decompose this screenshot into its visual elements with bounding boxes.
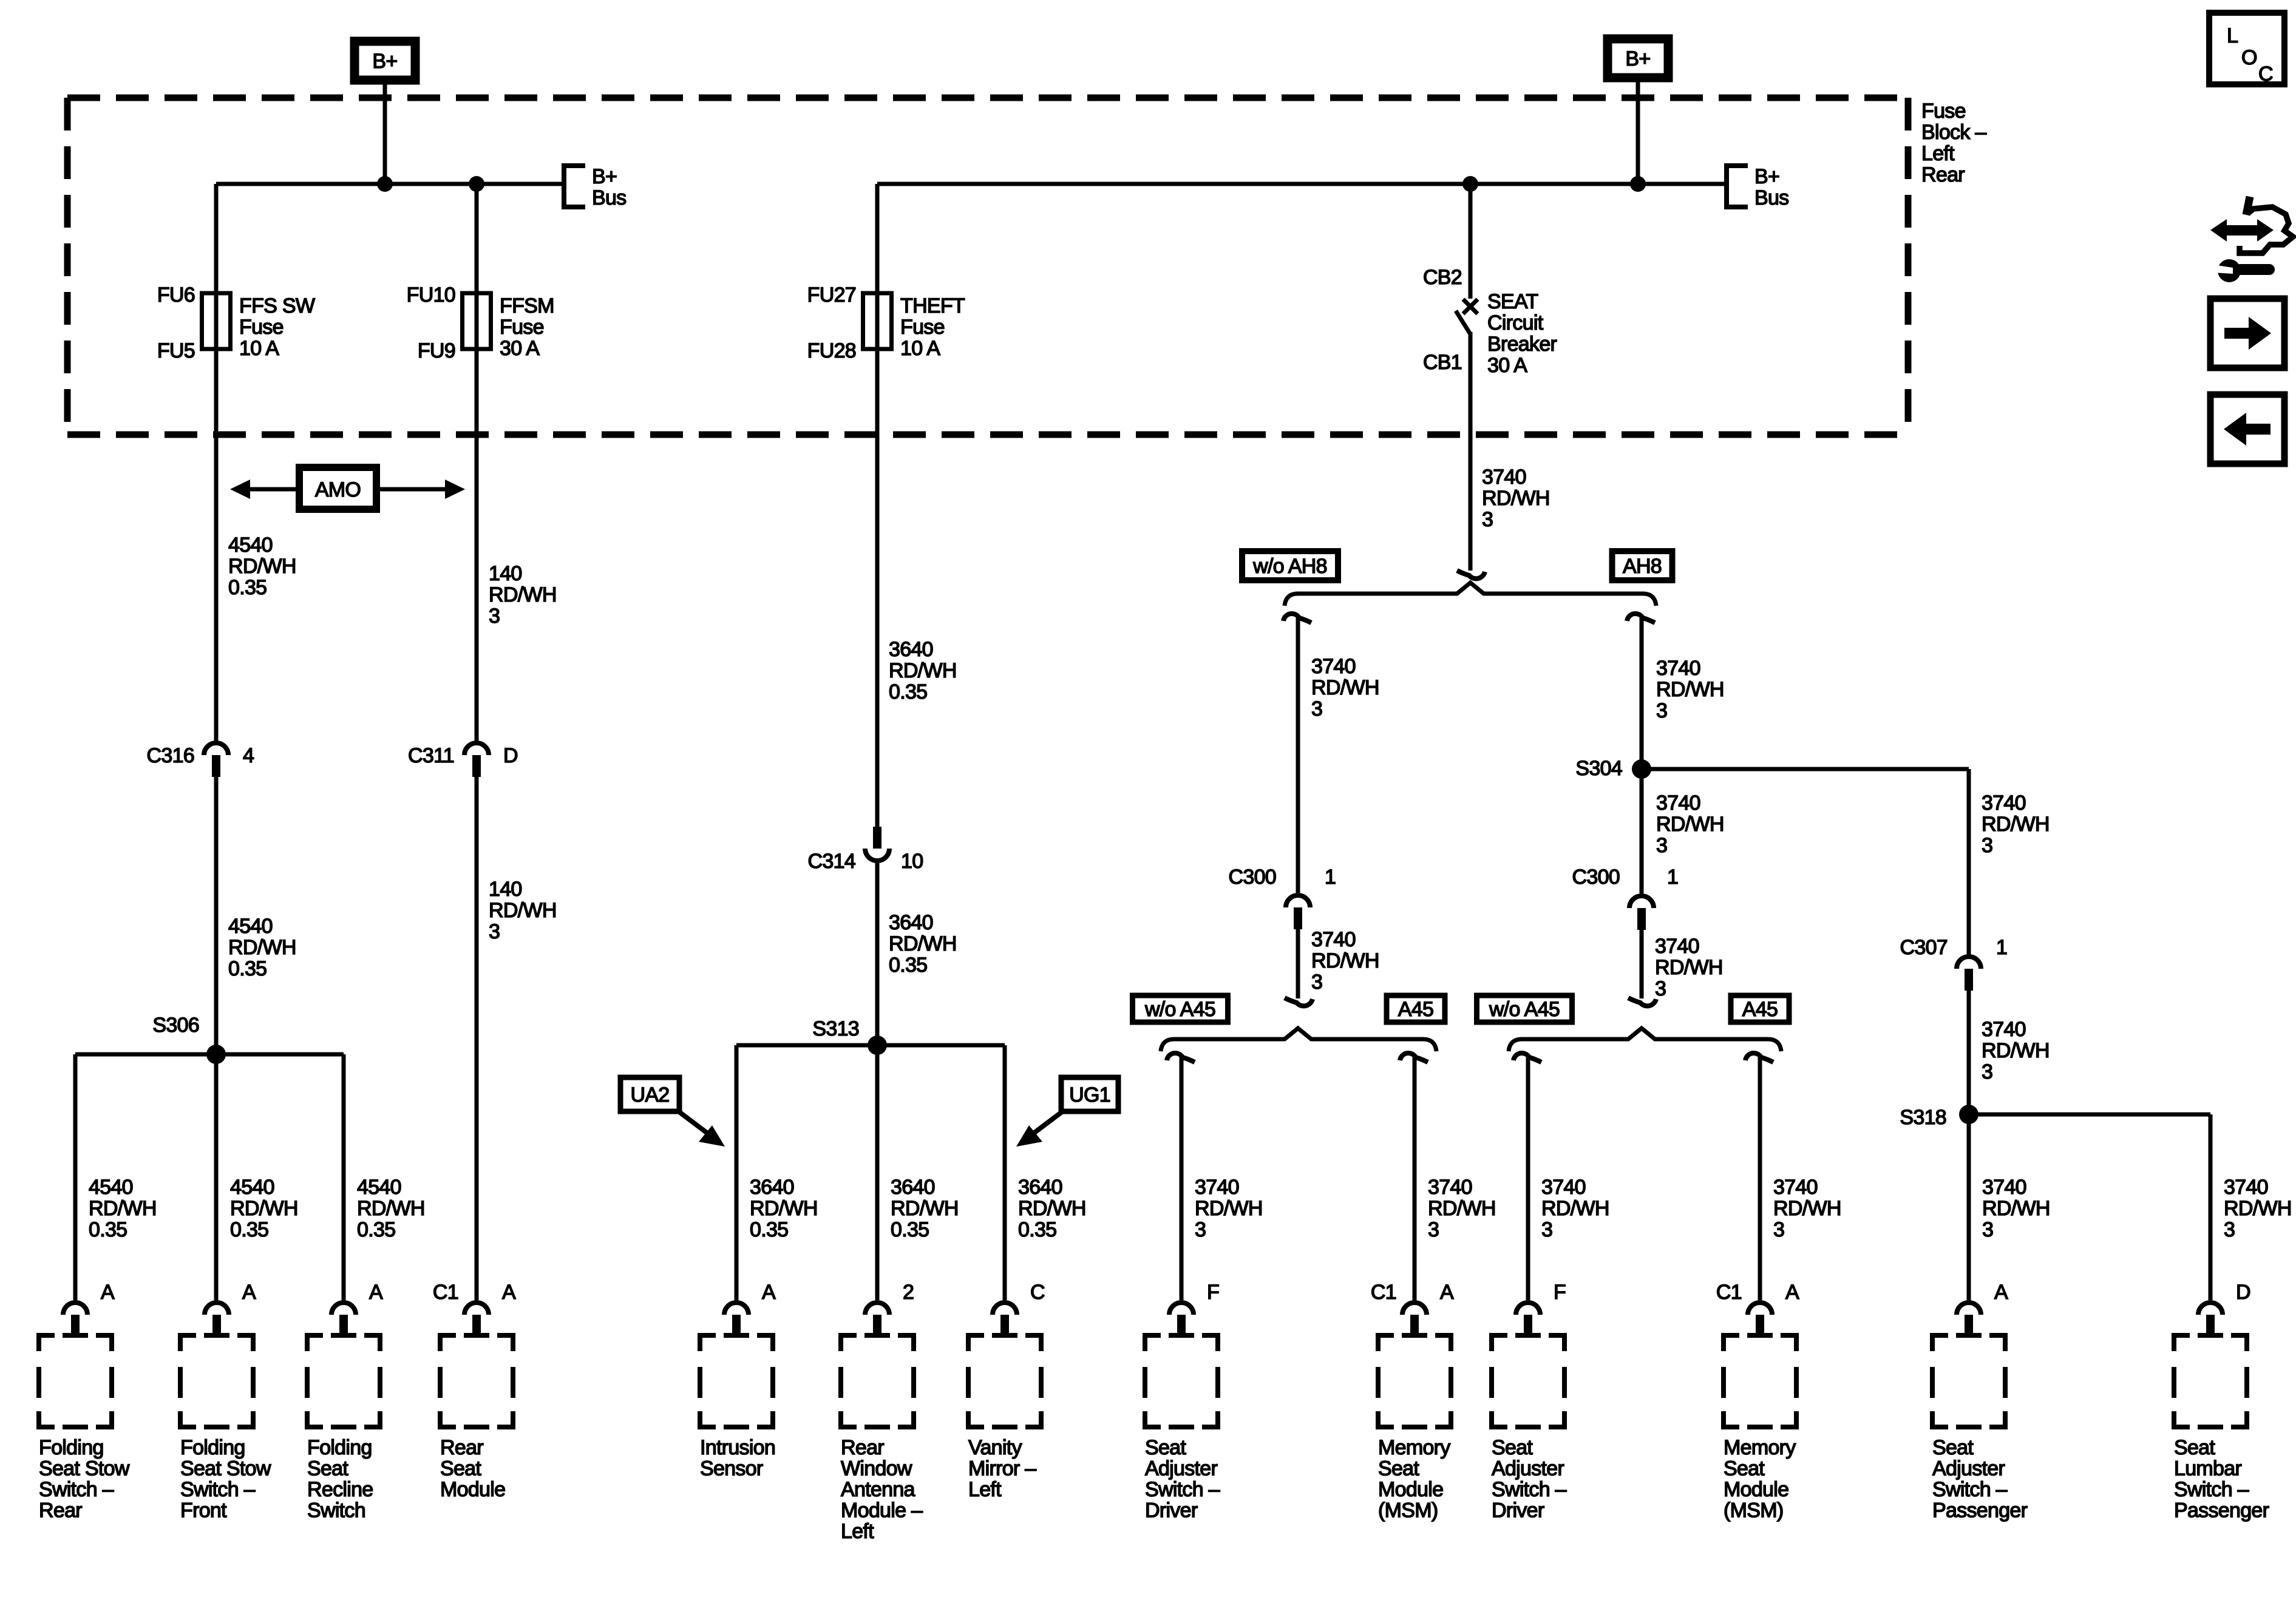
svg-text:RD/WH: RD/WH — [889, 932, 957, 955]
svg-text:Switch –: Switch – — [180, 1478, 256, 1501]
svg-text:D: D — [503, 744, 518, 767]
svg-text:C300: C300 — [1572, 866, 1620, 889]
svg-text:A: A — [502, 1281, 516, 1304]
svg-text:4540: 4540 — [357, 1176, 401, 1199]
svg-text:Fuse: Fuse — [900, 316, 945, 339]
svg-text:Fuse: Fuse — [1921, 100, 1966, 123]
svg-text:Bus: Bus — [592, 186, 627, 209]
svg-text:S313: S313 — [812, 1017, 859, 1040]
svg-text:CB2: CB2 — [1423, 266, 1462, 289]
svg-text:3740: 3740 — [1773, 1176, 1818, 1199]
svg-text:Folding: Folding — [307, 1436, 372, 1459]
svg-text:Module: Module — [1724, 1478, 1788, 1501]
svg-text:3: 3 — [489, 605, 500, 628]
svg-text:Seat Stow: Seat Stow — [180, 1457, 271, 1480]
svg-text:F: F — [1554, 1281, 1566, 1304]
svg-text:FU5: FU5 — [157, 339, 195, 362]
svg-text:Antenna: Antenna — [841, 1478, 915, 1501]
svg-text:Sensor: Sensor — [700, 1457, 763, 1480]
svg-text:SEAT: SEAT — [1487, 290, 1538, 313]
svg-text:3: 3 — [1541, 1218, 1552, 1241]
svg-text:RD/WH: RD/WH — [230, 1197, 298, 1220]
svg-text:Breaker: Breaker — [1487, 333, 1557, 356]
svg-text:C307: C307 — [1900, 936, 1948, 959]
svg-text:RD/WH: RD/WH — [1311, 676, 1379, 699]
svg-text:0.35: 0.35 — [89, 1218, 127, 1241]
svg-text:2: 2 — [903, 1281, 914, 1304]
svg-text:A: A — [1440, 1281, 1454, 1304]
svg-text:A: A — [242, 1281, 256, 1304]
svg-text:Seat: Seat — [1932, 1436, 1974, 1459]
svg-text:Seat Stow: Seat Stow — [39, 1457, 130, 1480]
svg-text:w/o AH8: w/o AH8 — [1252, 555, 1327, 578]
svg-text:3: 3 — [1982, 834, 1992, 857]
svg-text:RD/WH: RD/WH — [889, 659, 957, 682]
svg-text:Fuse: Fuse — [239, 316, 284, 339]
svg-text:A: A — [1994, 1281, 2008, 1304]
svg-text:RD/WH: RD/WH — [1982, 1197, 2050, 1220]
svg-text:3: 3 — [1982, 1060, 1992, 1083]
svg-text:C311: C311 — [408, 744, 454, 767]
svg-text:Memory: Memory — [1378, 1436, 1450, 1459]
svg-text:Rear: Rear — [440, 1436, 483, 1459]
svg-text:Driver: Driver — [1145, 1499, 1198, 1522]
svg-text:RD/WH: RD/WH — [1482, 487, 1550, 510]
svg-text:C314: C314 — [808, 850, 855, 873]
svg-text:Window: Window — [841, 1457, 912, 1480]
svg-text:AH8: AH8 — [1623, 555, 1662, 578]
svg-text:0.35: 0.35 — [228, 576, 267, 599]
svg-text:B+: B+ — [1754, 165, 1779, 188]
svg-text:RD/WH: RD/WH — [357, 1197, 425, 1220]
svg-text:CB1: CB1 — [1423, 351, 1462, 374]
svg-text:1: 1 — [1325, 866, 1336, 889]
svg-text:3740: 3740 — [1482, 466, 1526, 489]
svg-text:RD/WH: RD/WH — [1428, 1197, 1496, 1220]
svg-text:Left: Left — [841, 1520, 874, 1543]
svg-text:3740: 3740 — [1655, 935, 1699, 958]
svg-text:Switch –: Switch – — [1932, 1478, 2008, 1501]
svg-text:3740: 3740 — [1311, 655, 1356, 678]
svg-text:C: C — [2258, 63, 2273, 86]
svg-text:Fuse: Fuse — [500, 316, 544, 339]
svg-text:3: 3 — [1656, 699, 1667, 722]
svg-text:3740: 3740 — [1311, 928, 1356, 951]
svg-text:Passenger: Passenger — [2174, 1499, 2269, 1522]
svg-text:RD/WH: RD/WH — [489, 899, 557, 922]
svg-text:UG1: UG1 — [1069, 1083, 1110, 1107]
svg-text:RD/WH: RD/WH — [1982, 1039, 2050, 1062]
svg-text:Adjuster: Adjuster — [1492, 1457, 1564, 1480]
svg-text:Switch –: Switch – — [1492, 1478, 1567, 1501]
svg-text:4540: 4540 — [230, 1176, 274, 1199]
svg-text:RD/WH: RD/WH — [1541, 1197, 1609, 1220]
svg-text:THEFT: THEFT — [900, 294, 965, 317]
svg-text:C316: C316 — [147, 744, 194, 767]
svg-text:RD/WH: RD/WH — [89, 1197, 157, 1220]
svg-text:Module: Module — [1378, 1478, 1443, 1501]
svg-text:RD/WH: RD/WH — [1018, 1197, 1086, 1220]
svg-text:Rear: Rear — [39, 1499, 82, 1522]
svg-text:Left: Left — [968, 1478, 1002, 1501]
svg-text:3: 3 — [1428, 1218, 1439, 1241]
svg-text:Recline: Recline — [307, 1478, 373, 1501]
svg-text:A: A — [762, 1281, 776, 1304]
svg-text:O: O — [2241, 46, 2257, 69]
svg-text:A: A — [101, 1281, 115, 1304]
svg-text:RD/WH: RD/WH — [750, 1197, 818, 1220]
svg-text:Passenger: Passenger — [1932, 1499, 2028, 1522]
svg-text:RD/WH: RD/WH — [2224, 1197, 2292, 1220]
svg-text:0.35: 0.35 — [889, 680, 927, 703]
svg-text:0.35: 0.35 — [230, 1218, 268, 1241]
svg-text:Switch –: Switch – — [2174, 1478, 2249, 1501]
svg-text:Front: Front — [180, 1499, 227, 1522]
svg-text:0.35: 0.35 — [891, 1218, 929, 1241]
svg-text:3640: 3640 — [891, 1176, 935, 1199]
svg-text:B+: B+ — [1625, 47, 1650, 70]
svg-text:0.35: 0.35 — [750, 1218, 788, 1241]
svg-text:Module –: Module – — [841, 1499, 923, 1522]
svg-text:3740: 3740 — [1428, 1176, 1472, 1199]
svg-text:3740: 3740 — [1982, 1018, 2026, 1041]
svg-text:RD/WH: RD/WH — [228, 555, 296, 578]
svg-text:Folding: Folding — [39, 1436, 104, 1459]
svg-text:3: 3 — [1655, 977, 1666, 1000]
svg-text:Mirror –: Mirror – — [968, 1457, 1036, 1480]
svg-text:UA2: UA2 — [630, 1083, 669, 1107]
svg-text:F: F — [1207, 1281, 1219, 1304]
svg-text:RD/WH: RD/WH — [1773, 1197, 1841, 1220]
svg-text:Seat: Seat — [1492, 1436, 1533, 1459]
svg-text:3: 3 — [2224, 1218, 2235, 1241]
svg-text:4540: 4540 — [228, 915, 273, 938]
svg-text:S304: S304 — [1575, 757, 1622, 780]
svg-text:(MSM): (MSM) — [1724, 1499, 1783, 1522]
svg-text:Rear: Rear — [1921, 163, 1965, 186]
svg-text:30 A: 30 A — [500, 337, 540, 360]
svg-text:w/o A45: w/o A45 — [1489, 998, 1560, 1021]
svg-text:3640: 3640 — [889, 911, 933, 934]
svg-text:FU28: FU28 — [807, 339, 856, 362]
svg-text:C: C — [1030, 1281, 1045, 1304]
svg-text:AMO: AMO — [315, 478, 361, 501]
svg-text:RD/WH: RD/WH — [891, 1197, 959, 1220]
svg-text:S306: S306 — [152, 1014, 199, 1037]
svg-text:3: 3 — [489, 920, 500, 943]
svg-text:Switch –: Switch – — [1145, 1478, 1220, 1501]
svg-text:Adjuster: Adjuster — [1932, 1457, 2005, 1480]
svg-text:Seat: Seat — [307, 1457, 348, 1480]
svg-text:L: L — [2227, 24, 2238, 47]
svg-text:3: 3 — [1311, 697, 1322, 720]
svg-text:0.35: 0.35 — [357, 1218, 395, 1241]
svg-text:Lumbar: Lumbar — [2174, 1457, 2241, 1480]
svg-text:RD/WH: RD/WH — [1656, 813, 1724, 836]
svg-text:RD/WH: RD/WH — [1311, 949, 1379, 972]
svg-text:3740: 3740 — [1656, 792, 1700, 815]
svg-text:Folding: Folding — [180, 1436, 245, 1459]
svg-text:3740: 3740 — [2224, 1176, 2268, 1199]
svg-text:Seat: Seat — [1145, 1436, 1186, 1459]
svg-text:C1: C1 — [433, 1281, 458, 1304]
svg-text:D: D — [2236, 1281, 2250, 1304]
svg-text:Module: Module — [440, 1478, 505, 1501]
svg-text:A: A — [369, 1281, 383, 1304]
svg-text:FU10: FU10 — [407, 283, 455, 307]
svg-text:C1: C1 — [1371, 1281, 1396, 1304]
svg-text:RD/WH: RD/WH — [489, 583, 557, 606]
svg-text:Rear: Rear — [841, 1436, 884, 1459]
svg-text:Adjuster: Adjuster — [1145, 1457, 1218, 1480]
svg-text:3: 3 — [1195, 1218, 1206, 1241]
svg-text:Left: Left — [1921, 142, 1955, 165]
svg-text:Memory: Memory — [1724, 1436, 1796, 1459]
svg-text:(MSM): (MSM) — [1378, 1499, 1438, 1522]
svg-text:FFS SW: FFS SW — [239, 294, 315, 317]
svg-text:4: 4 — [243, 744, 254, 767]
svg-text:B+: B+ — [592, 165, 617, 188]
svg-text:3: 3 — [1982, 1218, 1993, 1241]
svg-text:FU27: FU27 — [807, 283, 856, 307]
svg-text:C1: C1 — [1716, 1281, 1742, 1304]
svg-text:FU6: FU6 — [157, 283, 195, 307]
svg-text:Seat: Seat — [440, 1457, 481, 1480]
svg-text:RD/WH: RD/WH — [1195, 1197, 1263, 1220]
svg-text:FU9: FU9 — [418, 339, 455, 362]
svg-text:3740: 3740 — [1541, 1176, 1586, 1199]
svg-text:3740: 3740 — [1982, 1176, 2026, 1199]
svg-text:10: 10 — [901, 850, 923, 873]
svg-text:FFSM: FFSM — [500, 294, 554, 317]
svg-text:10 A: 10 A — [239, 337, 279, 360]
svg-text:Switch –: Switch – — [39, 1478, 114, 1501]
svg-text:4540: 4540 — [89, 1176, 133, 1199]
svg-text:0.35: 0.35 — [1018, 1218, 1056, 1241]
svg-text:3740: 3740 — [1982, 792, 2026, 815]
svg-text:Seat: Seat — [1378, 1457, 1419, 1480]
svg-text:3640: 3640 — [889, 638, 933, 661]
svg-text:RD/WH: RD/WH — [1982, 813, 2050, 836]
svg-text:140: 140 — [489, 562, 522, 585]
svg-text:30 A: 30 A — [1487, 354, 1527, 377]
svg-text:Driver: Driver — [1492, 1499, 1544, 1522]
svg-text:1: 1 — [1667, 866, 1678, 889]
svg-text:A: A — [1785, 1281, 1799, 1304]
svg-text:Circuit: Circuit — [1487, 311, 1544, 334]
svg-text:0.35: 0.35 — [228, 957, 267, 980]
svg-text:0.35: 0.35 — [889, 954, 927, 977]
svg-text:A45: A45 — [1742, 998, 1778, 1021]
svg-text:Seat: Seat — [1724, 1457, 1765, 1480]
svg-text:Bus: Bus — [1754, 186, 1789, 209]
svg-text:Switch: Switch — [307, 1499, 365, 1522]
svg-text:3740: 3740 — [1656, 657, 1700, 680]
svg-text:3: 3 — [1656, 834, 1667, 857]
svg-text:RD/WH: RD/WH — [228, 936, 296, 959]
svg-text:A45: A45 — [1398, 998, 1433, 1021]
svg-text:10 A: 10 A — [900, 337, 940, 360]
svg-text:3: 3 — [1773, 1218, 1784, 1241]
svg-text:Seat: Seat — [2174, 1436, 2215, 1459]
svg-text:B+: B+ — [372, 50, 397, 73]
svg-text:C300: C300 — [1229, 866, 1276, 889]
svg-text:RD/WH: RD/WH — [1656, 678, 1724, 701]
svg-text:3: 3 — [1482, 508, 1493, 531]
svg-text:3740: 3740 — [1195, 1176, 1239, 1199]
svg-text:RD/WH: RD/WH — [1655, 956, 1723, 979]
svg-text:Intrusion: Intrusion — [700, 1436, 775, 1459]
svg-text:Vanity: Vanity — [968, 1436, 1022, 1459]
svg-text:Block –: Block – — [1921, 121, 1986, 144]
svg-text:3640: 3640 — [1018, 1176, 1062, 1199]
svg-text:w/o A45: w/o A45 — [1144, 998, 1215, 1021]
svg-text:3: 3 — [1311, 971, 1322, 994]
svg-text:4540: 4540 — [228, 534, 273, 557]
svg-text:1: 1 — [1996, 936, 2007, 959]
svg-text:140: 140 — [489, 878, 522, 901]
svg-text:S318: S318 — [1900, 1106, 1946, 1129]
svg-text:3640: 3640 — [750, 1176, 794, 1199]
